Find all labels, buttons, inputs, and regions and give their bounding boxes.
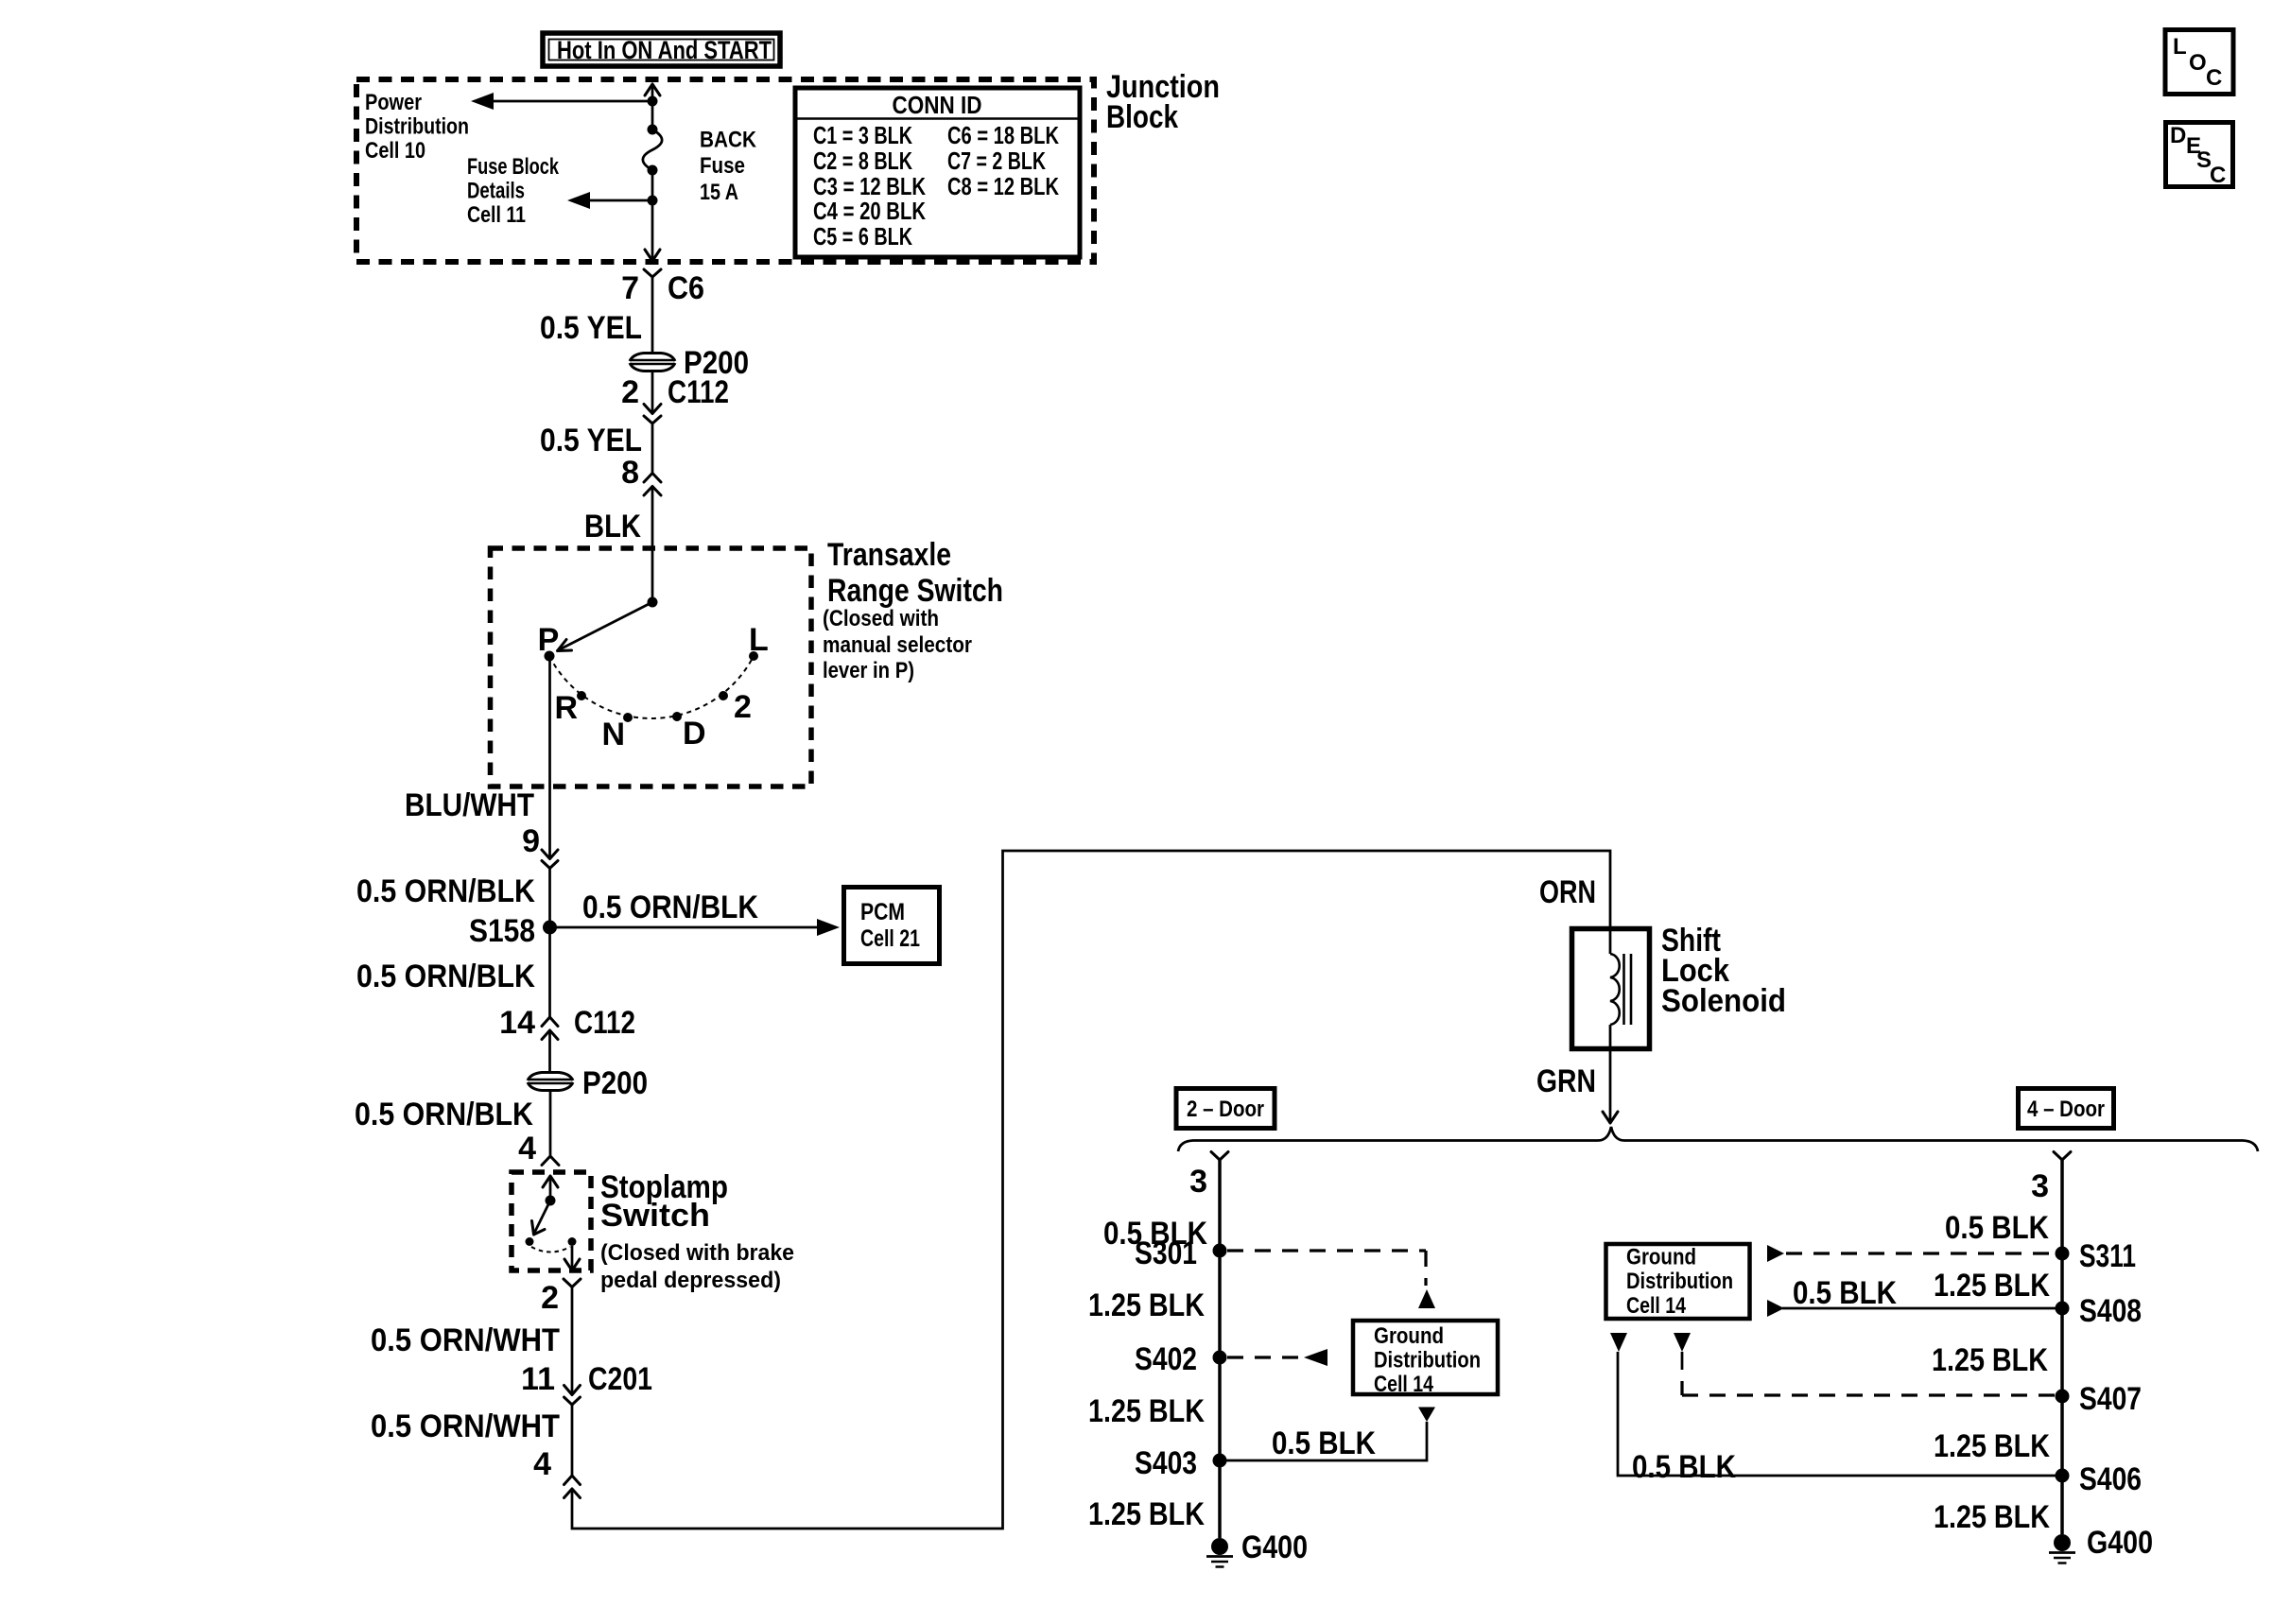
svg-text:Power: Power	[365, 90, 422, 115]
svg-text:L: L	[749, 622, 769, 658]
svg-text:1.25 BLK: 1.25 BLK	[1088, 1287, 1205, 1323]
svg-text:C112: C112	[574, 1005, 635, 1041]
svg-text:C5 = 6 BLK: C5 = 6 BLK	[813, 222, 912, 251]
svg-text:2: 2	[541, 1280, 559, 1316]
svg-text:P200: P200	[582, 1065, 648, 1101]
wire: 0.5 ORN/BLK to stoplamp switch	[549, 1090, 552, 1156]
svg-text:1.25 BLK: 1.25 BLK	[1088, 1496, 1205, 1532]
svg-text:CONN ID: CONN ID	[893, 91, 982, 119]
svg-text:C112: C112	[668, 374, 729, 410]
svg-text:P: P	[538, 622, 560, 658]
svg-text:(Closed with: (Closed with	[823, 606, 939, 631]
wire: to P200 lower	[548, 1030, 551, 1071]
svg-text:0.5 ORN/BLK: 0.5 ORN/BLK	[582, 890, 758, 925]
node: Ground Distribution Cell 14 box (4-door)	[1606, 1244, 1750, 1319]
svg-text:4: 4	[533, 1446, 551, 1482]
svg-text:N: N	[601, 717, 625, 752]
wire: coil to box bottom	[1609, 1025, 1612, 1051]
node: splice S407	[2056, 1390, 2070, 1404]
svg-text:1.25 BLK: 1.25 BLK	[1932, 1342, 2048, 1378]
wire: output arm with down arrow	[571, 1246, 574, 1270]
wire: long run to shift lock solenoid	[572, 851, 1610, 1529]
svg-text:0.5 BLK: 0.5 BLK	[1632, 1449, 1736, 1485]
node: splice S403	[1213, 1454, 1227, 1468]
node: junction dot to power distribution	[648, 96, 658, 107]
wire: dashed from box to S311	[1767, 1245, 1784, 1262]
svg-text:0.5 ORN/BLK: 0.5 ORN/BLK	[356, 873, 535, 909]
svg-text:S402: S402	[1135, 1341, 1197, 1377]
wire: GRN output with down arrow	[1609, 1051, 1612, 1123]
svg-text:8: 8	[621, 455, 639, 491]
svg-text:ORN: ORN	[1539, 874, 1596, 910]
wire: 0.5 YEL from C6 to P200	[651, 277, 654, 352]
node: 2-Door tag box	[1176, 1089, 1275, 1129]
svg-text:S408: S408	[2079, 1293, 2142, 1329]
svg-text:0.5 YEL: 0.5 YEL	[540, 310, 642, 346]
ground G400 (4-door)	[2049, 1525, 2153, 1564]
wire: dashed from S402 toward box	[1227, 1356, 1302, 1358]
wire: dashed selector arc P-R-N-D-2-L	[549, 656, 754, 718]
connector C112 pin 14 (female + male arrow up)	[542, 1017, 558, 1027]
svg-text:PCM: PCM	[860, 899, 905, 925]
wire: BLU/WHT from switch P down	[548, 656, 551, 858]
node: PCM Cell 21 box	[844, 888, 940, 964]
wire: arrow to Power Distribution	[492, 100, 652, 103]
ground G400 (2-door)	[1206, 1529, 1308, 1567]
connector C112 (male arrow into female Y)	[644, 405, 661, 414]
svg-text:Cell 14: Cell 14	[1374, 1372, 1434, 1397]
svg-text:Cell 10: Cell 10	[365, 138, 425, 164]
svg-text:C2 = 8 BLK: C2 = 8 BLK	[813, 147, 912, 175]
svg-text:O: O	[2189, 50, 2207, 76]
node: splice S406	[2056, 1469, 2070, 1483]
svg-text:Ground: Ground	[1374, 1323, 1444, 1349]
node: contact D	[672, 712, 682, 721]
node: contact L	[749, 651, 758, 661]
wire: switch wiper arm to P	[559, 602, 652, 650]
junction block J1 (dashed enclosure)	[356, 79, 1094, 262]
node: splice S301	[1213, 1244, 1227, 1258]
node: 4-Door tag box	[2019, 1089, 2114, 1129]
wire: stoplamp lever arm	[535, 1201, 551, 1233]
node: contact N	[623, 713, 633, 722]
connector junction block cavity 8 (female + male arrow up)	[644, 474, 661, 483]
svg-text:C4 = 20 BLK: C4 = 20 BLK	[813, 197, 926, 225]
svg-text:Solenoid: Solenoid	[1661, 983, 1786, 1019]
wire: 0.5 BLK to S301	[1218, 1160, 1222, 1538]
svg-text:Fuse Block: Fuse Block	[467, 154, 559, 180]
svg-text:1.25 BLK: 1.25 BLK	[1088, 1393, 1205, 1429]
svg-text:L: L	[2173, 34, 2187, 60]
fuse F1: BACK Fuse 15 A	[643, 125, 757, 206]
svg-text:3: 3	[2031, 1168, 2049, 1204]
wire: dashed contact arc	[531, 1247, 570, 1253]
svg-text:BLK: BLK	[584, 509, 641, 544]
wire: exit arrow at junction block bottom	[645, 250, 660, 261]
wire: fuse to lower junction	[651, 170, 654, 261]
svg-text:3: 3	[1189, 1164, 1207, 1200]
svg-text:Distribution: Distribution	[365, 114, 469, 140]
node: stoplamp right contact	[568, 1237, 577, 1246]
svg-text:7: 7	[621, 270, 639, 306]
wire: 0.5 BLK from S403 up to box	[1220, 1422, 1427, 1460]
wire: brace splitting 2-door / 4-door	[1178, 1127, 2258, 1151]
node: splice S402	[1213, 1351, 1227, 1365]
svg-text:Cell 14: Cell 14	[1626, 1293, 1687, 1319]
svg-text:0.5 ORN/BLK: 0.5 ORN/BLK	[355, 1097, 533, 1132]
node: contact P	[545, 651, 555, 662]
node: contact 2	[719, 691, 728, 700]
svg-text:C6: C6	[668, 270, 704, 306]
node: contact R	[577, 691, 586, 700]
svg-text:C: C	[2210, 163, 2226, 188]
svg-text:Distribution: Distribution	[1374, 1348, 1481, 1373]
wire: 0.5 BLK long run to S406	[1618, 1352, 2056, 1476]
svg-text:pedal depressed): pedal depressed)	[600, 1268, 781, 1293]
svg-text:Range Switch: Range Switch	[827, 573, 1003, 609]
wire: 0.5 ORN/BLK to S158	[548, 869, 551, 1018]
svg-text:0.5 ORN/WHT: 0.5 ORN/WHT	[371, 1322, 560, 1358]
wire: input arm with up arrow	[543, 1176, 558, 1187]
connector stoplamp switch cavity (female)	[542, 1156, 559, 1166]
svg-text:Cell 11: Cell 11	[467, 202, 526, 228]
svg-text:0.5 BLK: 0.5 BLK	[1945, 1210, 2049, 1246]
connector 2-door branch cavity (female Y)	[1211, 1152, 1228, 1161]
node: stoplamp pivot	[546, 1196, 556, 1206]
node: Ground Distribution Cell 14 box (2-door)	[1353, 1321, 1498, 1397]
node: splice S158	[543, 921, 557, 935]
svg-text:D: D	[683, 716, 706, 752]
svg-text:C: C	[2206, 65, 2222, 91]
svg-text:S403: S403	[1135, 1445, 1197, 1481]
switch S1: Transaxle Range Switch (dashed box)	[491, 548, 812, 786]
svg-text:0.5 YEL: 0.5 YEL	[540, 423, 642, 458]
solenoid L1: Shift Lock Solenoid box	[1572, 929, 1650, 1049]
wire: 0.5 ORN/BLK branch to PCM	[550, 926, 820, 929]
svg-text:C1 = 3 BLK: C1 = 3 BLK	[813, 121, 912, 149]
svg-text:C8 = 12 BLK: C8 = 12 BLK	[947, 172, 1059, 200]
svg-text:9: 9	[522, 823, 540, 859]
svg-text:S407: S407	[2079, 1381, 2142, 1417]
node: junction dot to fuse block details	[648, 196, 658, 206]
connector P200 grommet (upper)	[630, 345, 749, 381]
svg-text:0.5 ORN/BLK: 0.5 ORN/BLK	[356, 959, 535, 994]
svg-text:D: D	[2170, 123, 2186, 148]
node: splice S311	[2056, 1247, 2070, 1261]
core bars	[1622, 954, 1625, 1025]
svg-text:1.25 BLK: 1.25 BLK	[1934, 1499, 2050, 1535]
connector body harness pass-through (female + male arrow up)	[564, 1476, 581, 1485]
svg-text:2 – Door: 2 – Door	[1187, 1097, 1264, 1122]
svg-text:C7 = 2 BLK: C7 = 2 BLK	[947, 147, 1046, 175]
node: CONN ID table	[795, 88, 1080, 257]
connector C201 (male arrow into female Y)	[564, 1386, 581, 1395]
node: stoplamp left contact	[526, 1237, 534, 1246]
wire: stub and dashed run to S407	[1681, 1352, 1684, 1370]
wire: 0.5 YEL below C112	[651, 423, 654, 474]
svg-text:Transaxle: Transaxle	[827, 537, 951, 573]
svg-text:S406: S406	[2079, 1461, 2142, 1497]
svg-text:Hot In ON And START: Hot In ON And START	[557, 36, 772, 64]
svg-text:Block: Block	[1106, 99, 1178, 135]
svg-text:manual selector: manual selector	[823, 632, 972, 658]
wire: BLK into transaxle range switch	[651, 487, 654, 603]
svg-text:G400: G400	[1241, 1529, 1308, 1565]
connector P200 grommet (lower)	[528, 1065, 648, 1101]
connector 9 (male arrow into female Y)	[542, 850, 558, 859]
wire: 0.5 ORN/WHT below C201	[571, 1405, 574, 1476]
node: splice S408	[2056, 1302, 2070, 1316]
svg-text:BACK: BACK	[700, 128, 757, 153]
wire: arrow to Fuse Block Details	[588, 199, 652, 202]
svg-text:Ground: Ground	[1626, 1245, 1696, 1270]
switch S2: Stoplamp Switch (dashed box)	[512, 1172, 591, 1270]
svg-text:S301: S301	[1135, 1235, 1197, 1271]
wire: 0.5 ORN/WHT to C201	[571, 1287, 574, 1395]
svg-text:C201: C201	[588, 1361, 652, 1397]
wire: P200 to C112	[651, 371, 654, 413]
svg-text:R: R	[554, 690, 578, 726]
svg-text:Cell 21: Cell 21	[860, 925, 920, 952]
svg-text:GRN: GRN	[1536, 1063, 1596, 1099]
svg-text:0.5 BLK: 0.5 BLK	[1793, 1275, 1897, 1311]
svg-text:Switch: Switch	[600, 1198, 710, 1234]
svg-text:14: 14	[499, 1005, 535, 1041]
svg-text:1.25 BLK: 1.25 BLK	[1934, 1268, 2050, 1304]
wire: 0.5 BLK to S311	[2060, 1160, 2064, 1534]
svg-text:Distribution: Distribution	[1626, 1269, 1733, 1294]
node: DESC reference box	[2166, 123, 2233, 189]
wire: 0.5 BLK box to S408	[1767, 1300, 1784, 1317]
svg-text:Details: Details	[467, 179, 525, 204]
svg-text:2: 2	[734, 689, 752, 725]
svg-text:BLU/WHT: BLU/WHT	[405, 787, 534, 823]
svg-text:S158: S158	[469, 913, 535, 949]
svg-text:C6 = 18 BLK: C6 = 18 BLK	[947, 121, 1059, 149]
svg-text:G400: G400	[2087, 1525, 2153, 1561]
svg-text:0.5 ORN/WHT: 0.5 ORN/WHT	[371, 1408, 560, 1444]
svg-text:4: 4	[518, 1131, 536, 1166]
svg-text:11: 11	[521, 1361, 555, 1397]
coil of shift lock solenoid	[1610, 954, 1620, 1025]
wire: down arrows below ground distribution box	[1610, 1333, 1627, 1352]
svg-text:Fuse: Fuse	[700, 153, 745, 179]
svg-text:S311: S311	[2079, 1238, 2136, 1274]
wire: feed into junction block (arrow up)	[645, 84, 660, 95]
svg-text:0.5 BLK: 0.5 BLK	[1272, 1425, 1376, 1461]
wire: inside solenoid to coil	[1609, 926, 1612, 954]
connector C6 cavity (female Y)	[644, 269, 661, 277]
svg-text:lever in P): lever in P)	[823, 658, 914, 683]
svg-text:2: 2	[621, 374, 639, 410]
connector stoplamp output cavity (female Y)	[564, 1279, 581, 1287]
node: switch input junction	[648, 597, 658, 608]
connector 4-door branch cavity (female Y)	[2054, 1152, 2071, 1161]
node: Hot In ON And START feed box	[543, 33, 780, 66]
svg-text:15 A: 15 A	[700, 180, 738, 205]
node: LOC reference box	[2165, 30, 2233, 95]
svg-text:1.25 BLK: 1.25 BLK	[1934, 1428, 2050, 1464]
svg-text:(Closed with brake: (Closed with brake	[600, 1240, 794, 1266]
svg-text:4 – Door: 4 – Door	[2027, 1097, 2105, 1122]
wire: dashed from S301 to ground distribution	[1227, 1251, 1426, 1286]
